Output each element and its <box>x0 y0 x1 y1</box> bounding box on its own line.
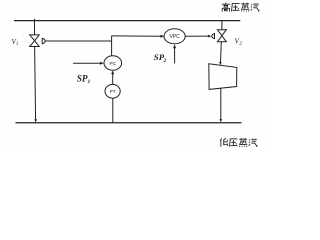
svg-text:SP2: SP2 <box>154 52 167 64</box>
actuator of V1 <box>42 38 45 43</box>
wire SP1 setpoint arrow into PC <box>73 62 102 64</box>
actuator of V2 <box>212 34 215 39</box>
char 汽 <box>249 139 257 146</box>
char 蒸 <box>239 138 247 147</box>
wire top high-pressure steam header <box>14 20 240 22</box>
valve V2 <box>217 30 226 36</box>
svg-text:PT: PT <box>110 89 116 94</box>
junction arrow into bottom header <box>34 119 37 122</box>
char 低 <box>220 138 228 147</box>
turbine <box>209 64 237 90</box>
wire PT to PC arrow <box>112 73 114 85</box>
svg-text:VPC: VPC <box>169 34 180 40</box>
controller VPC <box>164 29 185 44</box>
wire bottom low-pressure steam header <box>15 122 241 124</box>
wire V2 upper stem <box>221 21 223 30</box>
wire V1 upper stem <box>34 21 36 35</box>
wire turbine exhaust to bottom header <box>220 89 222 120</box>
svg-text:V1: V1 <box>12 38 19 47</box>
transmitter PT <box>105 84 120 98</box>
wire SP2 setpoint arrow into VPC <box>174 47 176 64</box>
char 压 <box>230 139 238 147</box>
char 高 <box>222 3 230 12</box>
svg-text:SP1: SP1 <box>77 73 91 85</box>
svg-text:PC: PC <box>109 61 116 67</box>
valve V1 <box>30 35 40 41</box>
wire V1 lower stem <box>35 47 36 121</box>
wire vertical riser above PC <box>111 36 113 56</box>
label 高压蒸汽 (high pressure steam) <box>222 3 259 12</box>
wire V2 to turbine inlet <box>220 42 223 63</box>
svg-text:V2: V2 <box>235 38 243 47</box>
label 低压蒸汽 (low pressure steam) <box>220 138 257 147</box>
wire PC output to V1 actuator <box>45 40 111 42</box>
char 蒸 <box>241 3 249 12</box>
char 压 <box>232 4 240 12</box>
wire to VPC input <box>112 35 162 37</box>
char 汽 <box>251 4 259 11</box>
wire PT tap to bottom header <box>112 98 114 123</box>
junction tick <box>34 19 36 21</box>
controller PC <box>104 56 122 70</box>
wire VPC output to V2 actuator <box>185 35 209 37</box>
